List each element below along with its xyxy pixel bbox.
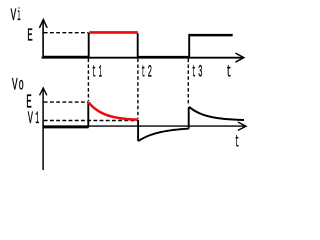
- wire Vi horizontal time axis: [42, 57, 243, 59]
- wire Vi falling edge at t2: [137, 33, 139, 57]
- wire Vo time axis arrowhead: [238, 122, 246, 130]
- node V1 level label: [28, 109, 40, 129]
- svg-text:1: 1: [35, 109, 39, 129]
- wire Vo zero segment before t1: [43, 126, 89, 129]
- wire E dashed level line (input): [44, 32, 89, 34]
- svg-text:E: E: [27, 26, 33, 47]
- svg-text:V: V: [12, 75, 18, 95]
- node t2 label: [142, 62, 153, 82]
- wire Vo vertical axis: [42, 89, 44, 170]
- svg-text:V: V: [28, 109, 33, 129]
- wire Vo vertical axis arrowhead: [40, 88, 47, 95]
- wire Vi low segment t2-t3: [137, 56, 190, 59]
- wire Vo step down at t2: [137, 120, 139, 141]
- svg-text:t: t: [226, 62, 231, 82]
- wire Vo recovery curve t2-t3: [138, 129, 188, 141]
- wire Vi vertical axis arrowhead: [40, 20, 47, 28]
- wire V1 dashed level line: [44, 120, 138, 122]
- node t3 label: [192, 62, 203, 82]
- svg-text:t: t: [192, 62, 196, 82]
- svg-text:1: 1: [99, 62, 102, 82]
- wire dashed marker line t1: [87, 59, 89, 102]
- wire Vo step up at t1: [87, 102, 89, 127]
- wire E dashed level line (output): [44, 101, 88, 103]
- wire dashed marker line t3: [187, 59, 189, 106]
- svg-text:2: 2: [148, 62, 152, 82]
- svg-text:V: V: [11, 6, 17, 26]
- wire Vi low segment before t1: [43, 56, 89, 59]
- wire Vi high segment t1-t2 (red): [89, 31, 138, 34]
- wire Vo exponential decay t1-t2 (red): [89, 102, 138, 119]
- wire Vo horizontal time axis: [42, 125, 244, 127]
- wire Vi rising edge at t1: [88, 33, 90, 58]
- svg-text:i: i: [17, 6, 20, 26]
- wire Vo exponential decay after t3: [189, 107, 244, 120]
- svg-text:t: t: [142, 62, 146, 82]
- wire Vi time axis arrowhead: [236, 53, 244, 61]
- wire Vi vertical axis: [42, 21, 44, 59]
- node Vi label: [11, 6, 21, 26]
- svg-text:o: o: [19, 75, 24, 95]
- svg-text:t: t: [235, 133, 239, 153]
- node t1 label: [92, 62, 102, 82]
- svg-text:3: 3: [198, 62, 202, 82]
- wire Vo step up at t3: [188, 107, 190, 129]
- wire Vi rising edge at t3: [188, 34, 190, 58]
- node Vo label: [12, 75, 24, 95]
- wire Vi high segment after t3: [190, 34, 233, 37]
- wire dashed marker line t2: [137, 59, 139, 119]
- svg-text:t: t: [92, 62, 96, 82]
